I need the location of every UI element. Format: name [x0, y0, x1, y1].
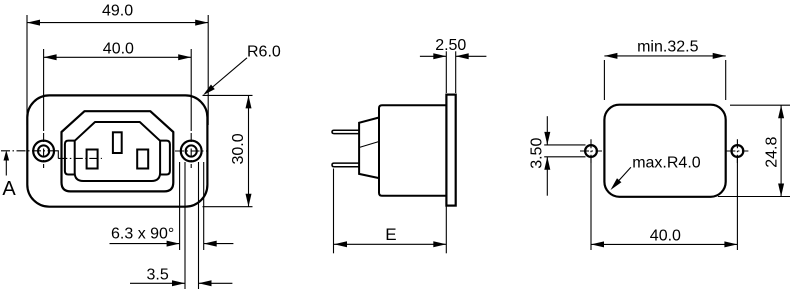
left ear tab — [65, 141, 75, 175]
left panel hole crosshair — [580, 150, 602, 152]
dimension 2.50 line — [420, 55, 446, 57]
dimension 24.8 line — [780, 105, 782, 196]
dimension 49.0 line — [27, 22, 208, 24]
dimension E line — [334, 243, 446, 245]
dimension 40.0 extension lines — [43, 49, 45, 131]
svg-text:40.0: 40.0 — [103, 40, 134, 57]
svg-text:3.50: 3.50 — [529, 138, 546, 169]
socket body outline — [62, 111, 174, 191]
dimension 3.50 line with outside arrows — [546, 116, 548, 145]
upper terminal pin — [332, 130, 359, 133]
right hole vertical centerline — [190, 133, 192, 168]
dimension 3.50 extension lines — [544, 144, 585, 146]
svg-text:E: E — [385, 225, 396, 244]
right ear tab — [160, 141, 170, 175]
right panel hole — [732, 145, 744, 157]
svg-text:R6.0: R6.0 — [247, 44, 281, 61]
svg-text:min.32.5: min.32.5 — [637, 39, 698, 56]
right pin slot — [137, 150, 148, 169]
svg-text:49.0: 49.0 — [102, 3, 133, 20]
svg-text:40.0: 40.0 — [650, 228, 681, 245]
svg-text:3.5: 3.5 — [147, 266, 169, 283]
left panel hole — [585, 145, 597, 157]
svg-text:30.0: 30.0 — [230, 133, 247, 164]
dimension 40.0 line — [591, 243, 737, 245]
dimension 40.0 line — [44, 56, 192, 58]
svg-text:max.R4.0: max.R4.0 — [632, 154, 701, 171]
panel cutout outline — [604, 105, 725, 197]
dimension 2.50 extension lines — [445, 51, 447, 93]
dimension 30.0 extension lines — [203, 94, 253, 96]
dimension 24.8 extension lines — [730, 104, 790, 106]
lower terminal pin — [332, 163, 359, 167]
svg-text:6.3 x 90°: 6.3 x 90° — [111, 226, 174, 243]
radius leader R6.0 — [205, 58, 247, 94]
dimension 30.0 line — [248, 95, 250, 206]
svg-text:24.8: 24.8 — [764, 137, 781, 168]
dimension 6.3 x 90 line — [110, 243, 180, 245]
svg-text:2.50: 2.50 — [435, 37, 466, 54]
dimension E extension lines — [333, 169, 335, 254]
side body outline — [379, 105, 446, 196]
left pin slot — [87, 150, 98, 169]
radius leader max.R4.0 — [613, 167, 631, 187]
flange outline — [27, 95, 207, 206]
hole extension lines 3.5 — [184, 162, 186, 289]
left hole vertical centerline — [43, 133, 45, 168]
dimension 3.5 line — [130, 282, 185, 284]
socket recess outline — [75, 122, 160, 181]
section line A-A with jog — [1, 150, 53, 152]
right mounting hole inner — [186, 145, 197, 156]
right mounting hole outer — [181, 141, 202, 162]
dimension 49.0 extension lines — [26, 15, 28, 125]
dimension 40.0 extension lines — [590, 158, 592, 250]
right hole horizontal centerline — [175, 150, 208, 152]
flange plate side — [446, 95, 455, 206]
earth pin slot — [113, 132, 122, 153]
right panel hole crosshair — [726, 150, 748, 152]
snout profile — [359, 118, 379, 179]
left mounting hole outer — [33, 141, 54, 162]
countersink extension lines 6.3 — [179, 162, 181, 250]
dimension min.32.5 line — [604, 55, 725, 57]
section arrow A — [5, 154, 7, 176]
dimension min.32.5 extension lines — [603, 60, 605, 100]
snout parting line — [359, 142, 379, 148]
left mounting hole inner — [38, 145, 49, 156]
svg-text:A: A — [2, 178, 16, 200]
